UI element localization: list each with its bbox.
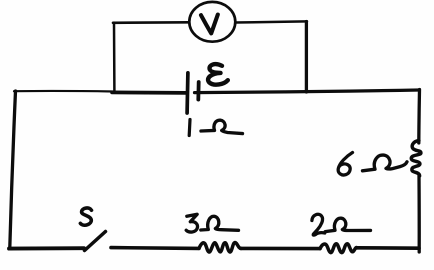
resistor 3-ohm (squiggle) <box>199 243 241 252</box>
wire bottom (switch to 3-ohm resistor) <box>111 246 199 250</box>
wire right vertical upper <box>417 90 421 144</box>
voltmeter branch: right vertical wire <box>305 22 308 93</box>
voltmeter V1 letter V <box>201 15 218 34</box>
wire left vertical <box>10 91 16 248</box>
wire top-left horizontal (thin) <box>14 90 113 93</box>
label omega (3 ohm) <box>201 216 239 230</box>
battery cell: long plate <box>185 73 189 113</box>
label omega (1 ohm) <box>201 120 243 133</box>
voltmeter V1 circle <box>189 2 235 42</box>
label EMF epsilon <box>208 64 228 85</box>
wire bottom left (to switch) <box>9 246 84 250</box>
voltmeter branch: top right horizontal wire <box>236 21 308 22</box>
wire bottom right (2-ohm to corner) <box>357 246 419 250</box>
label S <box>80 208 91 225</box>
voltmeter branch: top left horizontal wire <box>113 21 189 24</box>
label omega (6 ohm) <box>363 155 408 171</box>
voltmeter branch: left vertical wire <box>113 23 116 91</box>
wire top middle (battery left lead) <box>112 91 186 95</box>
label 3 <box>186 214 197 232</box>
label 2 <box>312 214 325 235</box>
switch S lever <box>85 232 106 251</box>
wire right vertical lower <box>417 175 421 253</box>
label 6 <box>338 153 352 176</box>
resistor 2-ohm (squiggle) <box>320 244 357 253</box>
label 1 (internal resistance) <box>188 120 192 136</box>
resistor 6-ohm (vertical squiggle) <box>411 141 421 176</box>
wire top right (battery right lead to top-right corner) <box>195 90 420 93</box>
battery cell: short plate <box>196 82 200 100</box>
wire bottom (3-ohm to 2-ohm) <box>241 247 320 251</box>
label omega (2 ohm) <box>325 218 370 231</box>
